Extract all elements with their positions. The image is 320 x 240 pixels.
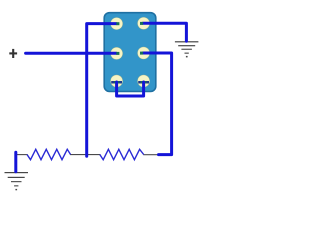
resistor lead R2 right (143, 154, 159, 156)
resistor lead R1-R2 middle (70, 154, 101, 156)
switch S1 pin 4 pad (138, 47, 150, 59)
switch S1 pin 3 pad (111, 47, 123, 59)
green tip pin 3 (116, 52, 119, 55)
green tip pin 2 (140, 22, 143, 25)
pin 5 slot bar (111, 81, 122, 84)
wire from plus to middle-left pin (26, 52, 117, 55)
switch S1 body (104, 13, 156, 92)
wire U-link pin 5 to pin 6 (117, 82, 144, 96)
wire top-right pin to ground GND2 (143, 23, 187, 41)
switch S1 pin 6 pad (138, 75, 150, 87)
wire from ground GND1 up to resistor R1 (14, 152, 17, 172)
green tip pin 4 (140, 52, 143, 55)
switch S1 pin 5 pad (111, 75, 123, 87)
resistor lead R1 left (17, 154, 28, 156)
switch S1 pin 1 pad (111, 18, 123, 30)
plus terminal (9, 49, 17, 58)
ground GND1 bottom-left (5, 172, 29, 190)
green tip pin 1 (116, 22, 119, 25)
pin 6 slot bar (138, 81, 149, 84)
switch S1 pin 2 pad (138, 17, 150, 29)
wire middle-right pin to resistor R2 (143, 53, 172, 155)
resistor R2 (100, 149, 144, 159)
wire node A vertical: top-left pin to resistor junction (87, 24, 117, 157)
resistor R1 (27, 149, 71, 159)
ground GND2 top-right (175, 41, 199, 57)
